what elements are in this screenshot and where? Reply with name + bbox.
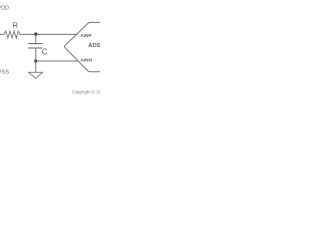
svg-text:VDD: VDD (0, 6, 9, 12)
svg-text:AINP: AINP (80, 33, 92, 39)
junction node top (34, 32, 37, 35)
resistor R (4, 31, 20, 38)
wire AINN horizontal (36, 60, 78, 62)
capacitor C top plate (28, 43, 42, 45)
wire AINP lead (0, 33, 4, 35)
svg-text:ADS1115: ADS1115 (88, 43, 100, 49)
wire resistor to ADC AINP (20, 33, 76, 35)
junction node bottom (34, 59, 37, 62)
ground stem (35, 61, 37, 72)
svg-text:Copyright © 2016, Texas Instru: Copyright © 2016, Texas Instruments (72, 90, 100, 95)
capacitor C bottom plate (28, 47, 42, 49)
wire junction to capacitor (35, 34, 37, 43)
wire capacitor to AINN node (35, 48, 37, 61)
ADC U1 body (65, 22, 100, 71)
ground symbol (29, 72, 43, 78)
svg-text:R: R (12, 20, 18, 29)
svg-text:VSS: VSS (0, 69, 9, 75)
svg-text:C: C (42, 47, 48, 56)
svg-text:AINN: AINN (80, 58, 92, 64)
